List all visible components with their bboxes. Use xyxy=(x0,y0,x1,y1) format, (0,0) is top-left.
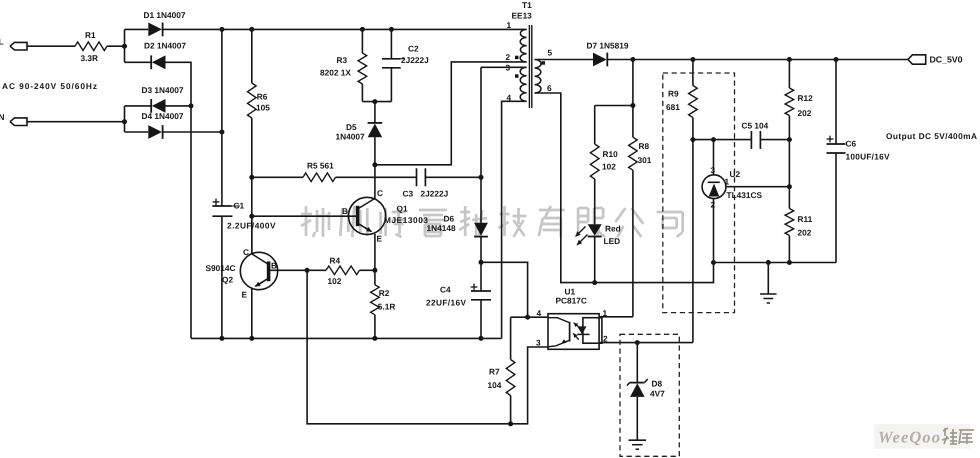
svg-text:D3 1N4007: D3 1N4007 xyxy=(142,85,184,95)
svg-text:3.3R: 3.3R xyxy=(81,53,99,63)
wire xyxy=(221,216,223,338)
junction xyxy=(766,260,771,265)
terminal DC_5V0 xyxy=(908,55,963,65)
svg-text:Q2: Q2 xyxy=(222,275,233,285)
svg-text:E: E xyxy=(242,290,248,300)
wire xyxy=(124,29,126,62)
wire Q2 base xyxy=(269,269,326,271)
resistor R9 681 xyxy=(666,60,697,140)
diode D6 1N4148 xyxy=(427,214,488,237)
svg-text:100UF/16V: 100UF/16V xyxy=(846,152,890,162)
wire U1 pin2 xyxy=(600,342,693,344)
wire xyxy=(163,28,527,30)
svg-text:4: 4 xyxy=(537,308,542,318)
svg-text:681: 681 xyxy=(666,102,680,112)
junction xyxy=(219,27,224,32)
junction xyxy=(249,27,254,32)
junction xyxy=(690,137,695,142)
resistor R10 102 xyxy=(590,106,618,225)
svg-text:AC 90-240V 50/60Hz: AC 90-240V 50/60Hz xyxy=(2,81,97,91)
capacitor C5 104 xyxy=(693,121,790,149)
svg-text:202: 202 xyxy=(798,108,812,118)
wire xyxy=(107,45,125,47)
junction xyxy=(787,137,792,142)
junction xyxy=(122,44,127,49)
wire pin3 xyxy=(481,66,527,68)
junction xyxy=(690,57,695,62)
svg-text:R4: R4 xyxy=(330,256,341,266)
svg-text:D6: D6 xyxy=(444,214,455,224)
shunt regulator U2 TL431CS xyxy=(702,140,789,263)
junction xyxy=(360,27,365,32)
svg-text:1N4148: 1N4148 xyxy=(427,223,456,233)
junction xyxy=(189,103,194,108)
capacitor C4 22UF/16V xyxy=(426,262,491,338)
resistor R11 202 xyxy=(785,187,813,263)
wire xyxy=(425,176,481,178)
transformer T1 EE13 xyxy=(506,0,553,108)
optocoupler U1 PC817C xyxy=(536,287,608,350)
svg-text:22UF/16V: 22UF/16V xyxy=(426,298,466,308)
diode D1 1N4007 xyxy=(125,10,186,36)
svg-text:3: 3 xyxy=(536,338,541,348)
svg-text:2: 2 xyxy=(711,200,716,210)
svg-text:C1: C1 xyxy=(234,201,245,211)
wire xyxy=(360,269,375,271)
junction xyxy=(249,214,254,219)
feedback network dashed box xyxy=(663,73,735,313)
wire xyxy=(27,121,125,123)
junction xyxy=(249,175,254,180)
svg-text:L: L xyxy=(0,37,4,47)
wire xyxy=(336,176,417,178)
resistor R5 561 xyxy=(252,161,336,182)
diode D5 1N4007 xyxy=(336,102,383,165)
wire xyxy=(528,316,548,318)
junction xyxy=(592,280,597,285)
terminal L xyxy=(0,37,27,51)
wire xyxy=(251,177,253,216)
svg-text:E: E xyxy=(377,234,383,244)
svg-text:2: 2 xyxy=(506,52,511,62)
wire xyxy=(124,106,126,132)
svg-text:1: 1 xyxy=(507,20,512,30)
svg-text:1: 1 xyxy=(603,308,608,318)
svg-text:4V7: 4V7 xyxy=(650,389,665,399)
wire aux winding pin3 drop xyxy=(480,67,482,222)
svg-text:C5 104: C5 104 xyxy=(742,121,769,131)
svg-text:102: 102 xyxy=(328,276,342,286)
junction xyxy=(479,175,484,180)
svg-text:PC817C: PC817C xyxy=(556,296,587,306)
wire xyxy=(511,347,548,424)
junction xyxy=(389,27,394,32)
wire xyxy=(788,140,790,187)
svg-text:C: C xyxy=(377,188,383,198)
svg-text:R6: R6 xyxy=(257,92,268,102)
diode D3 1N4007 xyxy=(125,85,184,113)
svg-text:DC_5V0: DC_5V0 xyxy=(930,55,963,65)
svg-text:105: 105 xyxy=(256,103,270,113)
zener clamp dashed box xyxy=(620,334,679,456)
ground xyxy=(629,440,647,449)
wire xyxy=(480,237,482,263)
svg-text:3: 3 xyxy=(711,165,716,175)
wire xyxy=(481,262,528,317)
wire xyxy=(511,316,528,318)
diode D2 1N4007 xyxy=(125,41,187,70)
wire xyxy=(362,101,391,103)
svg-text:Red: Red xyxy=(605,224,621,234)
junction xyxy=(630,57,635,62)
svg-text:R7: R7 xyxy=(489,367,500,377)
svg-text:C6: C6 xyxy=(846,139,857,149)
wire to opto feedback xyxy=(307,270,511,424)
svg-text:6: 6 xyxy=(547,83,552,93)
svg-text:R8: R8 xyxy=(639,141,650,151)
svg-text:301: 301 xyxy=(638,155,652,165)
junction xyxy=(630,103,635,108)
svg-text:104: 104 xyxy=(488,380,502,390)
wire xyxy=(375,62,527,165)
junction xyxy=(787,260,792,265)
svg-text:5.1R: 5.1R xyxy=(378,302,396,312)
svg-text:R9: R9 xyxy=(668,89,679,99)
capacitor C3 2J222J xyxy=(403,168,449,198)
junction xyxy=(249,336,254,341)
junction xyxy=(219,336,224,341)
svg-text:Q1: Q1 xyxy=(397,204,408,214)
junction xyxy=(372,336,377,341)
junction xyxy=(508,421,513,426)
svg-text:R10: R10 xyxy=(603,149,619,159)
svg-text:D2 1N4007: D2 1N4007 xyxy=(144,41,186,51)
wire xyxy=(166,62,192,338)
junction xyxy=(834,57,839,62)
junction xyxy=(372,162,377,167)
svg-text:8202 1X: 8202 1X xyxy=(320,68,351,78)
svg-text:LED: LED xyxy=(604,236,621,246)
svg-text:T1: T1 xyxy=(522,0,532,10)
resistor R2 5.1R xyxy=(371,270,396,338)
terminal N xyxy=(0,112,27,126)
resistor R4 102 xyxy=(326,256,360,287)
wire xyxy=(166,105,192,107)
svg-text:D5: D5 xyxy=(346,122,357,132)
transistor Q1 MJE13003 xyxy=(342,165,428,270)
svg-text:R2: R2 xyxy=(379,288,390,298)
svg-text:R11: R11 xyxy=(798,214,813,224)
svg-text:C3: C3 xyxy=(403,189,414,199)
wire xyxy=(251,216,253,253)
capacitor C6 100UF/16V xyxy=(827,60,890,263)
svg-text:C4: C4 xyxy=(440,285,451,295)
ground xyxy=(760,263,777,304)
junction xyxy=(711,260,716,265)
svg-text:B: B xyxy=(271,261,277,271)
svg-text:MJE13003: MJE13003 xyxy=(384,215,428,225)
junction xyxy=(372,99,377,104)
wire xyxy=(632,60,634,106)
wire xyxy=(595,105,633,107)
svg-text:EE13: EE13 xyxy=(512,11,533,21)
resistor R8 301 xyxy=(629,106,652,317)
wire Q1 base xyxy=(252,215,358,217)
svg-text:2J222J: 2J222J xyxy=(421,189,449,199)
svg-text:2J222J: 2J222J xyxy=(401,55,429,65)
junction xyxy=(479,260,484,265)
wire xyxy=(163,131,222,133)
junction xyxy=(372,268,377,273)
diode D7 1N5819 xyxy=(587,41,629,67)
wire xyxy=(221,29,223,206)
wire secondary return xyxy=(535,93,714,283)
junction xyxy=(525,315,530,320)
resistor R12 202 xyxy=(785,60,813,140)
transistor Q2 S9014C xyxy=(206,216,278,338)
junction xyxy=(787,184,792,189)
svg-text:B: B xyxy=(342,206,348,216)
capacitor C2 2J222J xyxy=(382,29,429,101)
ground rail secondary xyxy=(714,262,837,264)
junction xyxy=(122,119,127,124)
svg-text:C: C xyxy=(243,247,249,257)
resistor R1 xyxy=(75,30,107,63)
svg-text:R12: R12 xyxy=(798,93,814,103)
svg-text:N: N xyxy=(0,112,5,122)
wire U1 pin1 xyxy=(600,316,633,318)
junction xyxy=(479,336,484,341)
junction xyxy=(787,57,792,62)
svg-text:1N4007: 1N4007 xyxy=(336,132,365,142)
resistor R7 104 xyxy=(488,317,515,424)
svg-text:C2: C2 xyxy=(408,44,419,54)
resistor R3 8202 1X xyxy=(320,29,367,101)
ground rail primary xyxy=(191,337,502,339)
svg-text:R5 561: R5 561 xyxy=(307,161,334,171)
LED Red indicator xyxy=(576,224,621,283)
wire opto cathode riser xyxy=(692,140,694,343)
diode D4 1N4007 xyxy=(125,111,184,139)
svg-text:TL431CS: TL431CS xyxy=(727,190,763,200)
resistor R6 105 xyxy=(248,29,271,177)
capacitor C1 2.2UF/400V xyxy=(212,199,276,231)
junction xyxy=(219,130,224,135)
wire xyxy=(27,45,75,47)
svg-text:102: 102 xyxy=(602,162,616,172)
junction xyxy=(711,137,716,142)
wire pin4 xyxy=(502,101,527,338)
junction xyxy=(635,340,640,345)
svg-text:202: 202 xyxy=(798,228,812,238)
svg-text:R1: R1 xyxy=(85,30,96,40)
zener D8 4V7 xyxy=(627,343,665,441)
wire pin5 xyxy=(535,59,593,61)
svg-text:D7 1N5819: D7 1N5819 xyxy=(587,41,629,51)
svg-text:Output DC 5V/400mA: Output DC 5V/400mA xyxy=(886,131,977,141)
svg-text:S9014C: S9014C xyxy=(206,263,236,273)
svg-text:D8: D8 xyxy=(652,379,663,389)
svg-text:5: 5 xyxy=(548,48,553,58)
junction xyxy=(305,268,310,273)
svg-text:D1 1N4007: D1 1N4007 xyxy=(144,10,186,20)
svg-text:R3: R3 xyxy=(337,55,348,65)
svg-text:D4 1N4007: D4 1N4007 xyxy=(142,111,184,121)
wire 5V rail xyxy=(607,59,908,61)
